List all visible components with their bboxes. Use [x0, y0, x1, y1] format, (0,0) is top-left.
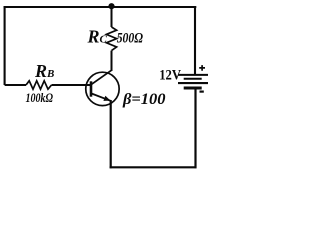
battery V1 plate short bottom — [184, 87, 202, 90]
svg-text:100kΩ: 100kΩ — [26, 90, 54, 105]
wire bottom rail — [110, 166, 197, 168]
wire emitter lead — [110, 100, 112, 168]
resistor RB zigzag — [26, 81, 52, 89]
wire base right segment — [52, 84, 91, 86]
svg-text:500Ω: 500Ω — [117, 31, 143, 47]
wire collector upper segment — [111, 7, 113, 27]
wire right rail lower — [194, 89, 196, 169]
transistor Q1 emitter arrowhead — [103, 96, 110, 101]
resistor RC zigzag — [106, 27, 116, 51]
node junction dot — [108, 3, 114, 9]
svg-text:12V: 12V — [159, 67, 181, 83]
transistor Q1 collector diagonal — [92, 70, 112, 84]
svg-text:RB: RB — [34, 61, 54, 81]
transistor Q1 circle — [86, 72, 119, 105]
wire collector lower segment — [111, 51, 113, 71]
wire base left segment — [5, 84, 26, 86]
wire right rail upper — [194, 6, 196, 75]
battery V1 plus sign — [199, 65, 205, 71]
battery V1 plate long lower — [178, 82, 208, 84]
wire top rail — [4, 6, 197, 8]
wire left rail — [4, 6, 6, 85]
transistor Q1 emitter diagonal — [92, 94, 111, 101]
svg-text:RC: RC — [87, 26, 108, 46]
transistor Q1 base bar — [90, 81, 93, 96]
svg-text:β=100: β=100 — [122, 91, 166, 108]
battery V1 plate long top — [178, 74, 208, 76]
battery V1 plate short upper — [184, 78, 202, 80]
battery V1 minus sign — [200, 90, 204, 92]
